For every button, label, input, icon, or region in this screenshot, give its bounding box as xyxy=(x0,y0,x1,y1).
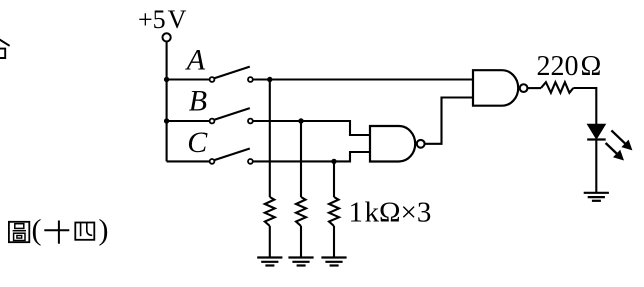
svg-text:1kΩ×3: 1kΩ×3 xyxy=(349,197,432,229)
resistor 220 ohm xyxy=(541,82,573,93)
terminal +5V xyxy=(163,33,171,41)
resistor R3 (1k) xyxy=(329,197,339,226)
label C xyxy=(187,126,208,159)
LED D1 xyxy=(587,125,606,140)
wire rail to switch C xyxy=(167,160,210,162)
wire switch C to NAND1 lower input xyxy=(253,152,370,161)
node C column junction xyxy=(331,159,336,164)
caption partial CJK char (he2) at left edge xyxy=(0,38,10,58)
wire supply rail xyxy=(166,42,168,161)
label 220 Ohm xyxy=(537,51,602,82)
svg-text:A: A xyxy=(185,44,206,77)
caption close paren xyxy=(99,214,109,247)
node B column junction xyxy=(298,118,303,123)
wire U2 output xyxy=(528,87,542,89)
wire switch A to NAND2 top input xyxy=(253,78,473,80)
caption CJK: si (four) glyph xyxy=(75,223,94,240)
switch C xyxy=(210,149,253,164)
wire column 1 xyxy=(269,80,271,198)
NAND gate U2 xyxy=(473,70,527,106)
resistor R2 (1k) xyxy=(296,197,306,226)
wire rail to switch B xyxy=(167,120,210,122)
label A xyxy=(185,44,206,77)
wire column 3 xyxy=(333,161,335,197)
LED emission arrow 2 xyxy=(606,143,624,161)
wire resistor to LED xyxy=(573,88,596,125)
wire R3 to ground xyxy=(333,226,335,258)
ground LED xyxy=(584,193,609,201)
wire column 2 xyxy=(300,121,302,197)
ground R1 xyxy=(257,258,282,266)
node rail-B junction xyxy=(164,118,169,123)
svg-text:220Ω: 220Ω xyxy=(537,51,602,82)
svg-text:+5V: +5V xyxy=(138,5,187,34)
svg-text:C: C xyxy=(187,126,208,159)
svg-text:B: B xyxy=(189,85,207,118)
wire switch B to NAND1 upper input xyxy=(253,121,370,135)
node A column junction xyxy=(267,77,272,82)
label 1kOhm x3 xyxy=(349,197,432,229)
ground R2 xyxy=(288,258,313,266)
caption CJK: Tu (figure) glyph xyxy=(9,222,29,242)
LED emission arrow 1 xyxy=(611,130,632,150)
node rail-A junction xyxy=(164,77,169,82)
resistor R1 (1k) xyxy=(265,197,275,226)
ground R3 xyxy=(321,258,346,266)
wire U1 output to U2 lower input xyxy=(425,98,473,144)
wire R1 to ground xyxy=(269,226,271,258)
wire LED to ground xyxy=(595,140,597,193)
NAND gate U1 xyxy=(370,126,425,162)
switch A xyxy=(210,67,253,82)
caption CJK: shi (ten) glyph xyxy=(44,221,69,244)
caption text parentheses and shi (ten) si (four) xyxy=(32,214,42,247)
switch B xyxy=(210,108,253,123)
wire R2 to ground xyxy=(300,226,302,258)
wire rail to switch A xyxy=(167,78,210,80)
label B xyxy=(189,85,207,118)
svg-text:): ) xyxy=(99,214,109,247)
svg-text:(: ( xyxy=(32,214,42,247)
label +5V xyxy=(138,5,187,34)
